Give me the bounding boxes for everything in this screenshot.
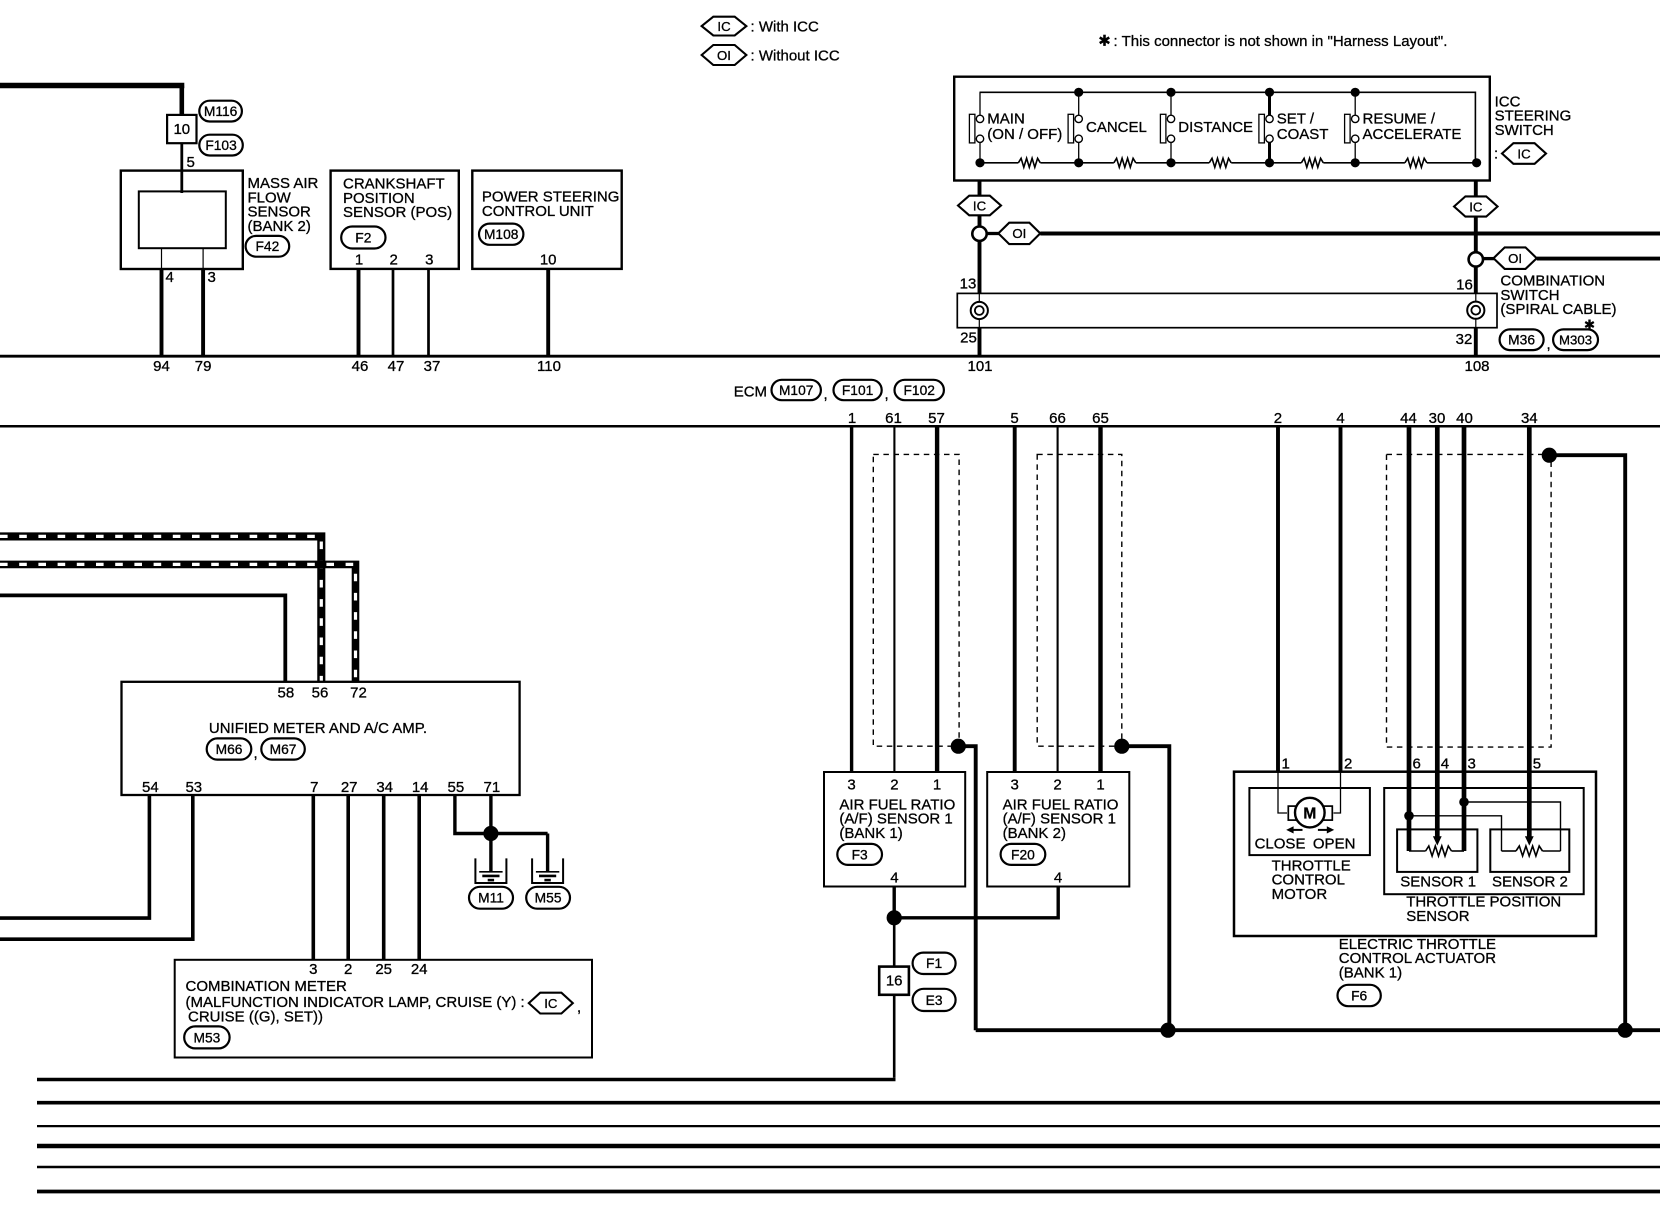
svg-text:1: 1 bbox=[848, 410, 856, 427]
wire fuse to MAF pin 5 bbox=[180, 143, 183, 193]
svg-text:53: 53 bbox=[185, 779, 202, 796]
shield AF sensor 1 harness bbox=[873, 454, 959, 746]
svg-text:30: 30 bbox=[1429, 410, 1446, 427]
wire TCA 1 to motor bbox=[1278, 772, 1287, 813]
mass air flow sensor element bbox=[139, 191, 226, 248]
svg-text:IC: IC bbox=[1517, 146, 1531, 161]
shielded wire to meter 56 bbox=[0, 536, 321, 682]
svg-text:(BANK 1): (BANK 1) bbox=[1339, 965, 1402, 982]
wire OI right to right edge bbox=[1537, 257, 1660, 261]
svg-text:5: 5 bbox=[187, 154, 195, 171]
svg-text:M303: M303 bbox=[1559, 332, 1592, 347]
connector OI right bbox=[1494, 247, 1537, 269]
wire ECM 34 to TPS 5 bbox=[1527, 426, 1532, 837]
svg-text:,: , bbox=[254, 745, 258, 762]
svg-text:14: 14 bbox=[412, 779, 429, 796]
cruise switch CANCEL bbox=[1078, 92, 1080, 115]
connector M11 bbox=[469, 887, 513, 909]
connector F6 bbox=[1338, 985, 1381, 1006]
wire MAF pin 4 bbox=[161, 248, 163, 269]
svg-text:7: 7 bbox=[310, 779, 318, 796]
cruise switch DISTANCE bbox=[1170, 92, 1172, 115]
svg-text:65: 65 bbox=[1092, 410, 1109, 427]
svg-text:2: 2 bbox=[1274, 410, 1282, 427]
svg-text:M67: M67 bbox=[270, 742, 297, 757]
stub to OI left bbox=[987, 232, 1000, 235]
connector F3 bbox=[837, 844, 882, 865]
wire to meter 58 bbox=[0, 595, 285, 682]
motor brush left bbox=[1288, 806, 1298, 820]
wire MAF pin 3 bbox=[202, 248, 204, 269]
connector F1 bbox=[913, 953, 956, 974]
svg-text:44: 44 bbox=[1400, 410, 1417, 427]
spiral cable right bbox=[1475, 293, 1477, 327]
wire spiral 25 to ECM 101 bbox=[978, 328, 982, 357]
svg-text:: This connector is not shown: : This connector is not shown in "Harnes… bbox=[1114, 33, 1448, 50]
harness line 2 bbox=[37, 1125, 1660, 1127]
drain bus junction 1 bbox=[1160, 1023, 1175, 1038]
svg-text:UNIFIED METER AND A/C AMP.: UNIFIED METER AND A/C AMP. bbox=[209, 720, 427, 737]
svg-text:2: 2 bbox=[1344, 755, 1352, 772]
svg-text:M108: M108 bbox=[484, 227, 519, 242]
motor M bbox=[1295, 798, 1325, 828]
svg-text:,: , bbox=[824, 386, 828, 403]
shield drain wire AF2 bbox=[1122, 746, 1170, 1030]
wire PS 10 to ECM 110 bbox=[546, 269, 550, 356]
wire ECM 66 to AF2 pin2 bbox=[1057, 426, 1059, 772]
svg-text:DISTANCE: DISTANCE bbox=[1178, 119, 1253, 136]
connector IC left bbox=[958, 196, 1001, 216]
svg-text:4: 4 bbox=[1336, 410, 1344, 427]
svg-text:3: 3 bbox=[1011, 776, 1019, 793]
svg-text:2: 2 bbox=[890, 776, 898, 793]
wire ECM 5 to AF2 pin3 bbox=[1013, 426, 1017, 772]
svg-text:10: 10 bbox=[173, 121, 190, 138]
svg-text:3: 3 bbox=[425, 251, 433, 268]
mass air flow sensor box bbox=[121, 171, 243, 269]
svg-text:94: 94 bbox=[153, 358, 170, 375]
svg-text:IC: IC bbox=[717, 19, 731, 34]
junction circle right bbox=[1469, 252, 1483, 266]
wire TPS3 to sensor2 bbox=[1464, 802, 1561, 851]
shield AF sensor 2 harness bbox=[1037, 454, 1122, 746]
svg-text:110: 110 bbox=[537, 358, 561, 375]
wire ECM 30 to TPS 4 bbox=[1435, 426, 1440, 837]
wire battery feed bbox=[0, 83, 184, 89]
sensor 1 junction 6 bbox=[1404, 811, 1414, 821]
wire TPS6 to sensor2 bbox=[1409, 816, 1502, 851]
svg-text:(SPIRAL CABLE): (SPIRAL CABLE) bbox=[1500, 301, 1616, 318]
drain bus junction 2 bbox=[1618, 1023, 1633, 1038]
svg-text:1: 1 bbox=[933, 776, 941, 793]
connector M303 bbox=[1553, 329, 1598, 350]
wire ECM 61 to AF1 pin2 bbox=[893, 426, 895, 772]
throttle position sensor box bbox=[1384, 788, 1584, 894]
svg-text:2: 2 bbox=[1053, 776, 1061, 793]
svg-text:1: 1 bbox=[1096, 776, 1104, 793]
wire ECM 65 to AF2 pin1 bbox=[1098, 426, 1102, 772]
cruise switch SET / COAST bbox=[1268, 92, 1271, 115]
svg-text:RESUME /: RESUME / bbox=[1363, 111, 1436, 128]
wire spiral 32 to ECM 108 bbox=[1474, 328, 1478, 357]
shield drain bus bbox=[976, 1028, 1660, 1032]
svg-text:2: 2 bbox=[390, 251, 398, 268]
wire 16 to left bbox=[37, 1078, 896, 1082]
svg-text:IC: IC bbox=[544, 996, 558, 1011]
svg-text:SENSOR 1: SENSOR 1 bbox=[1400, 873, 1476, 890]
connector M55 bbox=[526, 887, 570, 909]
connector M108 bbox=[479, 224, 523, 245]
connector F2 bbox=[341, 227, 385, 249]
shield drain wire TPS bbox=[1549, 455, 1625, 1030]
svg-text:CONTROL UNIT: CONTROL UNIT bbox=[482, 203, 594, 220]
stub to OI right bbox=[1483, 257, 1494, 260]
svg-text:37: 37 bbox=[424, 358, 441, 375]
svg-text:16: 16 bbox=[886, 973, 903, 990]
connector 16 box bbox=[879, 967, 909, 995]
connector M67 bbox=[261, 738, 305, 759]
svg-text:,: , bbox=[577, 999, 581, 1016]
svg-text:COMBINATION METER: COMBINATION METER bbox=[186, 978, 348, 995]
svg-text:MOTOR: MOTOR bbox=[1272, 886, 1328, 903]
svg-text:: Without ICC: : Without ICC bbox=[751, 48, 840, 65]
ground M55 bbox=[532, 858, 563, 883]
wire junction to spiral 13 bbox=[978, 241, 982, 294]
sensor 1 box bbox=[1397, 829, 1477, 872]
svg-text:CLOSE: CLOSE bbox=[1255, 835, 1306, 852]
svg-text:4: 4 bbox=[1054, 870, 1062, 887]
wire IC to junction right bbox=[1474, 217, 1478, 253]
wire ECM 44 to TPS 6 bbox=[1407, 426, 1412, 851]
svg-text:4: 4 bbox=[890, 870, 898, 887]
svg-text:M66: M66 bbox=[216, 742, 243, 757]
electric throttle control actuator box bbox=[1234, 772, 1596, 936]
wire POS 3 to ECM 37 bbox=[427, 269, 430, 356]
ECM top line bbox=[0, 355, 1660, 358]
connector M116 bbox=[199, 101, 242, 122]
svg-text:SWITCH: SWITCH bbox=[1495, 122, 1554, 139]
label IC hexagon bbox=[1502, 143, 1546, 164]
svg-text:34: 34 bbox=[1521, 410, 1538, 427]
connector F103 bbox=[199, 135, 243, 156]
shield drain junction TPS bbox=[1542, 448, 1557, 463]
svg-text:CANCEL: CANCEL bbox=[1086, 119, 1147, 136]
legend IC hexagon bbox=[702, 17, 747, 36]
shield throttle position sensor harness bbox=[1387, 454, 1552, 747]
spiral cable left bbox=[978, 293, 980, 327]
svg-text:3: 3 bbox=[208, 269, 216, 286]
svg-text:F20: F20 bbox=[1011, 847, 1035, 862]
connector F102 bbox=[895, 380, 944, 400]
wire ECM 1 to AF1 pin3 bbox=[850, 426, 853, 772]
svg-text:F1: F1 bbox=[926, 956, 942, 971]
power steering control unit box bbox=[472, 171, 621, 269]
sensor 1 resistor bbox=[1409, 850, 1426, 852]
wire ECM 40 to TPS 3 bbox=[1462, 426, 1467, 851]
wire POS 2 to ECM 47 bbox=[392, 269, 395, 356]
cruise switch RESUME / ACCELERATE bbox=[1354, 92, 1356, 115]
svg-text:ECM: ECM bbox=[734, 384, 767, 401]
svg-text:5: 5 bbox=[1533, 755, 1541, 772]
unified meter and AC amp box bbox=[122, 682, 520, 795]
svg-text:13: 13 bbox=[960, 275, 977, 292]
ECM bottom line bbox=[0, 425, 1660, 428]
wire IC to junction left bbox=[978, 215, 982, 227]
harness line 1 bbox=[37, 1101, 1660, 1105]
svg-text:(BANK 1): (BANK 1) bbox=[839, 825, 902, 842]
svg-text:OI: OI bbox=[1508, 251, 1522, 266]
svg-text:3: 3 bbox=[847, 776, 855, 793]
svg-text:M55: M55 bbox=[535, 891, 562, 906]
combination meter box bbox=[175, 960, 592, 1058]
connector M107 bbox=[772, 380, 821, 400]
svg-text:F103: F103 bbox=[205, 138, 237, 153]
svg-text:CRUISE ((G), SET)): CRUISE ((G), SET)) bbox=[188, 1009, 323, 1026]
svg-text:3: 3 bbox=[1468, 755, 1476, 772]
sensor 1 junction 3 bbox=[1459, 797, 1469, 807]
svg-text:,: , bbox=[1547, 336, 1551, 353]
fusible link 10 bbox=[167, 115, 196, 143]
svg-text:25: 25 bbox=[375, 961, 392, 978]
svg-text:34: 34 bbox=[376, 779, 393, 796]
ground junction dot bbox=[483, 826, 498, 841]
svg-text:OPEN: OPEN bbox=[1313, 835, 1356, 852]
connector IC right bbox=[1454, 196, 1498, 216]
air fuel ratio sensor 2 bank 2 box bbox=[987, 772, 1129, 887]
wire connector 16 down bbox=[893, 995, 896, 1078]
connector M36 bbox=[1500, 329, 1544, 350]
svg-text:61: 61 bbox=[885, 410, 902, 427]
resistor ladder end dot bbox=[1472, 158, 1481, 167]
wire junction to spiral 16 bbox=[1474, 266, 1478, 293]
connector M53 bbox=[184, 1026, 229, 1048]
svg-text:(ON / OFF): (ON / OFF) bbox=[987, 126, 1062, 143]
wire switch to IC left bbox=[978, 181, 982, 197]
shield drain junction AF1 bbox=[951, 739, 966, 754]
svg-text:66: 66 bbox=[1049, 410, 1066, 427]
svg-text:5: 5 bbox=[1010, 410, 1018, 427]
wire junction to connector 16 bbox=[893, 918, 896, 967]
svg-text:M11: M11 bbox=[478, 891, 504, 906]
wire meter 14 to comb meter 24 bbox=[417, 795, 421, 960]
svg-text:F6: F6 bbox=[1351, 988, 1367, 1003]
connector M66 bbox=[207, 738, 252, 759]
wire AF1 pin4 bbox=[893, 887, 896, 918]
air fuel ratio sensor 1 bank 1 box bbox=[824, 772, 965, 887]
resistor ladder wire bbox=[980, 162, 1018, 164]
wire TCA 2 to motor bbox=[1334, 772, 1341, 813]
switch common wire bbox=[980, 92, 1476, 163]
svg-text:56: 56 bbox=[312, 685, 329, 702]
svg-text:F42: F42 bbox=[256, 239, 280, 254]
svg-text:F3: F3 bbox=[852, 847, 868, 862]
svg-text:25: 25 bbox=[960, 329, 977, 346]
svg-text:46: 46 bbox=[352, 358, 369, 375]
svg-text:M36: M36 bbox=[1508, 333, 1535, 348]
svg-text:M: M bbox=[1303, 805, 1316, 822]
svg-text:: With ICC: : With ICC bbox=[751, 19, 820, 36]
svg-text:M107: M107 bbox=[779, 383, 814, 398]
svg-text:79: 79 bbox=[195, 358, 212, 375]
svg-text:IC: IC bbox=[973, 198, 987, 213]
svg-text:F102: F102 bbox=[903, 383, 934, 398]
asterisk mark bbox=[1588, 320, 1590, 330]
wire meter 55 to ground junction bbox=[455, 795, 548, 834]
svg-text:54: 54 bbox=[142, 779, 159, 796]
shield drain junction AF2 bbox=[1114, 739, 1129, 754]
svg-text:3: 3 bbox=[309, 961, 317, 978]
svg-text:(BANK 2): (BANK 2) bbox=[1003, 825, 1066, 842]
svg-text:M116: M116 bbox=[204, 104, 238, 119]
harness line 5 bbox=[37, 1190, 1660, 1194]
junction circle left bbox=[972, 227, 986, 241]
svg-text:F2: F2 bbox=[355, 230, 371, 245]
wire meter 54 to left bbox=[0, 795, 149, 918]
connector F20 bbox=[1001, 844, 1046, 865]
svg-text:6: 6 bbox=[1413, 755, 1421, 772]
shielded wire to meter 72 bbox=[0, 564, 356, 682]
svg-text:32: 32 bbox=[1456, 331, 1473, 348]
wire OI left to right edge bbox=[1040, 232, 1660, 236]
connector OI left bbox=[998, 223, 1040, 244]
ICC steering switch box bbox=[954, 77, 1490, 181]
motor arrow close bbox=[1290, 829, 1303, 831]
wire meter 53 to left bbox=[0, 795, 193, 939]
svg-text:72: 72 bbox=[350, 685, 367, 702]
wire ECM 2 to TCA 1 bbox=[1276, 426, 1280, 771]
junction AF pin4 bbox=[887, 910, 902, 925]
connector E3 bbox=[913, 989, 956, 1011]
svg-text:E3: E3 bbox=[926, 993, 943, 1008]
svg-text:57: 57 bbox=[928, 410, 945, 427]
sensor 2 box bbox=[1490, 829, 1569, 872]
crankshaft position sensor box bbox=[331, 171, 459, 269]
cruise switch MAIN (ON / OFF) bbox=[979, 92, 981, 115]
note asterisk bbox=[1103, 35, 1106, 46]
svg-text:55: 55 bbox=[448, 779, 465, 796]
wire AF2 pin4 bbox=[894, 887, 1058, 918]
svg-text:ACCELERATE: ACCELERATE bbox=[1363, 126, 1462, 143]
wire ECM 4 to TCA 2 bbox=[1339, 426, 1343, 771]
legend OI hexagon bbox=[702, 45, 747, 65]
svg-text:1: 1 bbox=[355, 251, 363, 268]
svg-text:OI: OI bbox=[1012, 226, 1026, 241]
svg-text:SET /: SET / bbox=[1277, 111, 1315, 128]
svg-text::: : bbox=[1494, 146, 1498, 163]
svg-text:101: 101 bbox=[967, 358, 992, 375]
svg-text:F101: F101 bbox=[842, 383, 873, 398]
svg-text:10: 10 bbox=[540, 251, 557, 268]
wire meter 71 to ground M11 bbox=[489, 795, 492, 871]
sensor 2 resistor bbox=[1502, 850, 1517, 852]
combination switch spiral cable box bbox=[957, 293, 1497, 327]
svg-text:,: , bbox=[885, 386, 889, 403]
svg-text:OI: OI bbox=[717, 48, 731, 63]
ground M11 bbox=[475, 858, 506, 883]
svg-text:71: 71 bbox=[484, 779, 501, 796]
svg-text:(BANK 2): (BANK 2) bbox=[248, 218, 311, 235]
svg-text:SENSOR 2: SENSOR 2 bbox=[1492, 873, 1568, 890]
wire switch to IC right bbox=[1474, 181, 1478, 197]
svg-text:1: 1 bbox=[1282, 755, 1290, 772]
svg-text:MAIN: MAIN bbox=[987, 111, 1025, 128]
wire junction to ground M55 bbox=[546, 834, 549, 872]
harness line 3 bbox=[37, 1144, 1660, 1149]
connector F101 bbox=[834, 380, 882, 400]
throttle control motor box bbox=[1249, 788, 1370, 855]
svg-text:2: 2 bbox=[344, 961, 352, 978]
svg-text:COAST: COAST bbox=[1277, 126, 1329, 143]
connector F42 bbox=[246, 236, 290, 257]
svg-text:SENSOR: SENSOR bbox=[1406, 908, 1470, 925]
motor brush right bbox=[1322, 806, 1332, 820]
svg-text:SENSOR (POS): SENSOR (POS) bbox=[343, 204, 452, 221]
wire ECM 57 to AF1 pin1 bbox=[935, 426, 939, 772]
svg-text:40: 40 bbox=[1456, 410, 1473, 427]
harness line 4 bbox=[37, 1166, 1660, 1168]
comb meter IC hexagon bbox=[529, 993, 573, 1014]
svg-text:16: 16 bbox=[1456, 276, 1473, 293]
svg-text:108: 108 bbox=[1464, 358, 1489, 375]
wire POS 1 to ECM 46 bbox=[357, 269, 361, 356]
shield drain wire AF1 bbox=[958, 746, 975, 1030]
svg-text:M53: M53 bbox=[193, 1030, 220, 1045]
svg-text:IC: IC bbox=[1469, 199, 1483, 214]
svg-text:47: 47 bbox=[388, 358, 405, 375]
svg-text:4: 4 bbox=[1441, 755, 1449, 772]
motor arrow open bbox=[1318, 829, 1331, 831]
wire meter 7 to comb meter 3 bbox=[311, 795, 315, 960]
wire meter 27 to comb meter 2 bbox=[346, 795, 350, 960]
svg-text:24: 24 bbox=[411, 961, 428, 978]
svg-text:4: 4 bbox=[166, 269, 174, 286]
svg-text:58: 58 bbox=[278, 685, 295, 702]
wire meter 34 to comb meter 25 bbox=[382, 795, 386, 960]
svg-text:27: 27 bbox=[341, 779, 358, 796]
